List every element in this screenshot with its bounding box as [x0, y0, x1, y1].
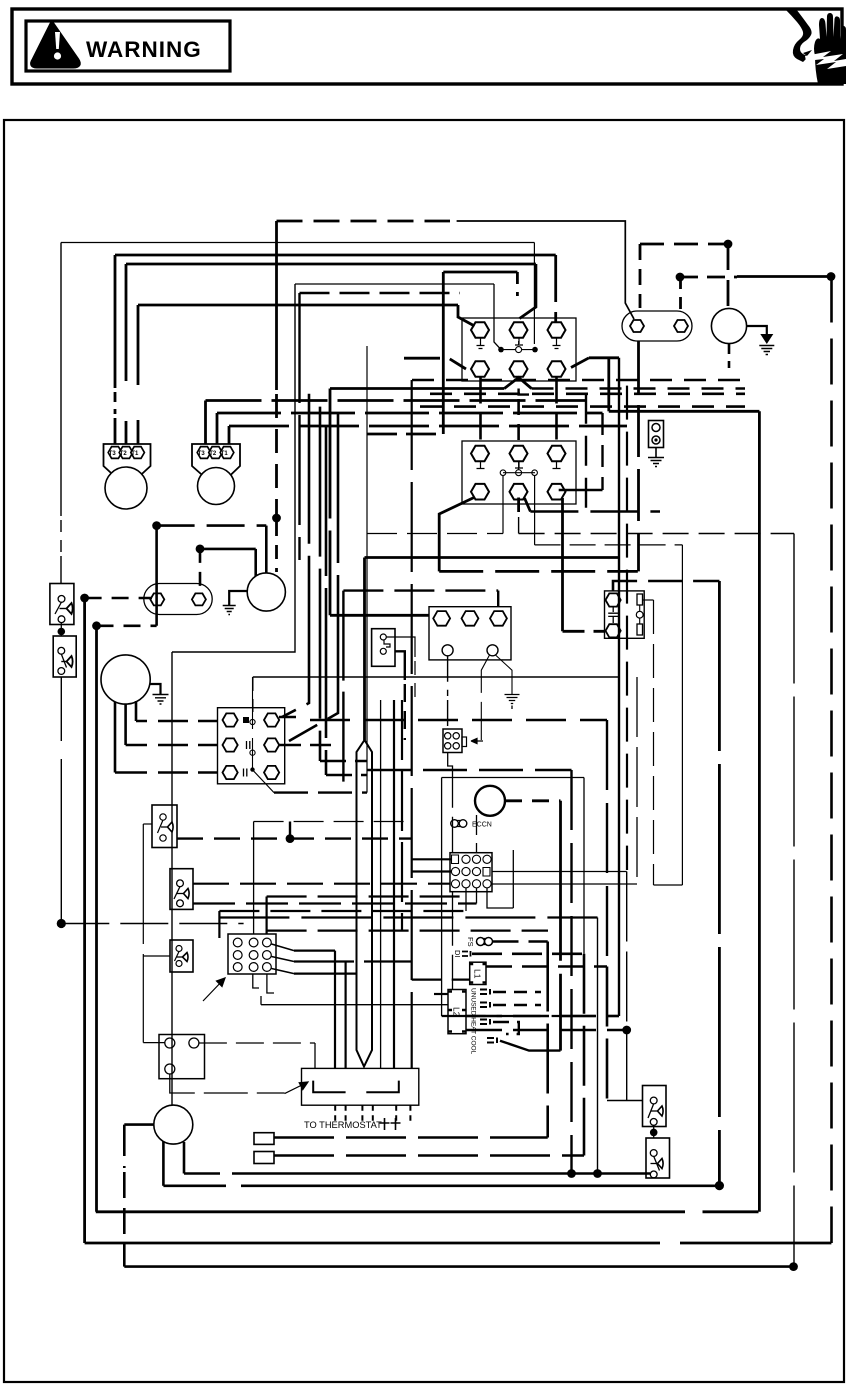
idc block 3x3 body	[228, 934, 276, 974]
wire x=84.6 long down	[83, 598, 86, 1243]
PS1 bottom wire right	[395, 651, 405, 680]
R1 right side elements	[637, 594, 643, 605]
wire thin y=284 run	[295, 283, 494, 285]
HR hex R2	[264, 738, 279, 751]
wire y=1185.8 long run	[163, 1185, 719, 1188]
node dot x831 y276.5	[827, 272, 836, 281]
wire K2 pole2 thin dashed run y=533.5	[519, 517, 794, 534]
plug UNUSED	[480, 989, 490, 995]
O2 hex terminal right	[192, 593, 206, 605]
wire y=571.4 run to oval feed	[439, 570, 638, 573]
M2 terminal T3	[197, 447, 211, 459]
wire diag into K1 pole1 bottom	[404, 358, 466, 369]
wire x=602.5 dashed riser	[601, 413, 603, 490]
svg-text:T1: T1	[131, 451, 139, 457]
RT2 wire right y=1155.5	[274, 1154, 584, 1157]
wire x=681 down to oval terminal	[679, 277, 682, 312]
K2 aux contact bar	[503, 472, 535, 474]
K2 pole2 top terminal	[510, 446, 528, 462]
wire x=586 dashed riser	[585, 394, 587, 512]
S3 contact symbol	[160, 814, 166, 820]
wire right vertical x=759.4	[758, 411, 761, 1212]
safety switch ground	[655, 448, 657, 458]
wire y=434 stub left	[367, 433, 443, 436]
ECCN wire right	[505, 799, 561, 802]
circle C1 transformer	[247, 573, 285, 611]
ECCN relay circle	[475, 786, 505, 816]
K1 pole1 coil mark	[477, 338, 485, 349]
plug HEAT	[480, 1002, 490, 1008]
node dot between S6 S7	[650, 1129, 658, 1137]
TS bottom dashed ticks	[335, 1105, 410, 1122]
T3 bottom-left wire	[162, 1142, 165, 1186]
HR internal link row2	[247, 741, 250, 749]
TS bracket right	[366, 1081, 399, 1093]
R1 hex top	[606, 593, 621, 606]
svg-text:WARNING: WARNING	[86, 37, 202, 62]
wire x=266.3 into circle C1	[265, 526, 268, 574]
S4 contact symbol	[177, 880, 184, 887]
tstat pointer arrow	[285, 1082, 308, 1094]
wire y=950.6 to bundle	[294, 949, 335, 951]
wire x=380.6 down	[380, 700, 382, 1068]
wire y=525.6 dashed to circle C1	[157, 524, 267, 527]
dagger marks	[380, 1118, 390, 1130]
ECCN jumper symbol	[451, 820, 459, 828]
CN col4 bottom tail	[487, 888, 513, 908]
wire thin x=367 long	[366, 346, 368, 793]
pilot switch box PS1	[372, 629, 395, 667]
M2 terminal T2	[209, 447, 223, 459]
wire y=357.8 K1 pole3 link	[589, 356, 619, 359]
wire x=626.7 from conn down to S6	[626, 872, 628, 1093]
K1 pole1 top terminal	[471, 322, 489, 338]
L2 box	[448, 990, 466, 1034]
wire top dashed run y=221	[277, 220, 451, 223]
TB1 hex 3	[490, 611, 507, 626]
CN right ext row3	[492, 883, 637, 885]
wire x=607 down	[606, 720, 608, 967]
svg-text:T2: T2	[120, 451, 128, 457]
R1 hex bottom	[606, 624, 621, 637]
K1 pole3 coil mark	[553, 338, 561, 349]
dashed bundle y=393.8	[430, 392, 745, 395]
wire T2 bottom-left to heater row3	[115, 702, 147, 773]
control box left edge	[441, 778, 443, 1005]
wire x=555.7 to contactor	[554, 255, 557, 322]
oval hex terminal left	[630, 320, 644, 332]
wire y=548.9 to circle C1	[200, 548, 256, 551]
M1 terminal T1	[131, 447, 145, 459]
wire x=597.5 riser	[597, 918, 599, 1174]
wire bundle x=326	[325, 426, 328, 775]
wire y=930.6 run	[267, 929, 548, 931]
wire bundle x=309 diag into HR R1	[282, 394, 309, 717]
node dot x626.7 y1030	[622, 1026, 631, 1035]
wire x=345.6 down to tstat	[345, 962, 347, 1069]
HR right stubs	[279, 716, 296, 719]
wire thin x=637	[636, 677, 638, 884]
wire x=138 to motor1 T1	[137, 305, 140, 444]
L1 right wire	[486, 965, 607, 968]
wire x=343.4 down to heater block	[342, 591, 344, 793]
wire x=639 dashed above oval	[639, 244, 642, 308]
wire x=126 to motor1 T2	[125, 264, 128, 444]
warning banner inner box	[26, 21, 230, 71]
control box right edge x=584	[583, 778, 585, 954]
node dot x290 y838.6	[286, 834, 295, 843]
S3 right dashed wire y=838.6	[177, 837, 412, 839]
wire y=557.5 run	[365, 556, 620, 559]
tstat arrow stem pair	[357, 740, 373, 1067]
S1 contact symbol	[58, 596, 65, 603]
warning triangle symbol	[33, 24, 79, 66]
C1 ground symbol	[223, 606, 236, 615]
M1 terminal T2	[119, 447, 133, 459]
TB1 hex 1	[433, 611, 450, 626]
oval terminal block O2	[144, 584, 212, 615]
wire x=200 dashed into oval O2	[199, 549, 202, 590]
node dot x728 y244	[724, 240, 733, 249]
wire y=770 run right	[367, 769, 572, 771]
K2 pole2 bottom terminal	[510, 484, 528, 500]
CN left feed row1	[412, 858, 452, 860]
wire TB1-B fork to ground	[481, 655, 489, 740]
svg-text:ECCN: ECCN	[472, 822, 492, 829]
K2 pole1 coil mark	[477, 462, 485, 469]
contactor K1 body	[462, 318, 576, 381]
wire x=266.6 down to idc	[266, 897, 268, 938]
motor M1 body	[105, 467, 147, 509]
DI plug symbol	[462, 951, 471, 957]
switch S7 box	[646, 1138, 670, 1178]
K2 pole column feeds from K1	[479, 378, 482, 447]
K1 pole3 top terminal	[548, 322, 566, 338]
T1 ground symbol	[760, 334, 773, 344]
K1 pole2 coil mark	[515, 338, 523, 345]
K1 pole2 top terminal	[510, 322, 528, 338]
PS1 top wire right thin	[386, 637, 415, 657]
wire x=441.6 jog	[441, 1005, 443, 1016]
PS1 contact symbol	[380, 634, 386, 640]
motor M1 terminal block	[104, 444, 151, 478]
switch S3 box	[152, 805, 177, 848]
wire y=511.5 run right	[530, 510, 660, 513]
safety switch box right (two circles)	[649, 421, 664, 448]
HR hex R3	[264, 766, 279, 779]
node dot x61 y923.5	[57, 919, 66, 928]
svg-text:UNUSED HEAT COOL: UNUSED HEAT COOL	[470, 988, 477, 1055]
wire y=896.5 run	[267, 895, 466, 897]
R1 capacitor mark	[608, 607, 618, 623]
wire long dashed right side x=831.5	[830, 277, 833, 1244]
wire x=156.6 through oval O2	[155, 526, 158, 626]
CN pins row2	[451, 867, 459, 875]
S7 contact symbol	[650, 1150, 657, 1157]
wire y=426 motor2 T1 run	[229, 425, 627, 428]
wire T2 bottom-mid to heater row2	[126, 704, 147, 745]
LVB bottom wire y=1093 to arrow	[170, 1074, 285, 1093]
dashed bundle y=388.5 from K1 V-split	[532, 387, 746, 390]
idc circles row2	[233, 951, 242, 960]
S6 left wire	[607, 1100, 643, 1102]
wire S2 down to bottom node	[60, 677, 62, 924]
FS plug symbol	[477, 938, 485, 946]
wire y=1211.8 long run	[96, 1210, 759, 1213]
wire thin x=534.4 to aux contact	[533, 243, 535, 345]
S6 contact symbol	[650, 1097, 657, 1104]
node dot x793.5 y1266.6	[789, 1262, 798, 1271]
T2 ground symbol	[153, 695, 169, 705]
DI wire right	[472, 952, 584, 955]
wire x=498.2 into strip TB1	[497, 591, 499, 611]
wire y=961.5 to bundle	[294, 960, 412, 962]
PSW arrow	[471, 738, 483, 743]
K2 pole3 top terminal	[548, 446, 566, 462]
CN col2 bottom tail	[465, 888, 467, 911]
wire x=728 down to transformer T1	[727, 244, 730, 308]
wire y=1016 left run	[442, 1015, 619, 1017]
wire y=821.5 thin dashed run	[254, 821, 412, 823]
wire x=517.4 dashed down	[516, 272, 519, 296]
switch S4 box	[170, 869, 193, 910]
S4 bottom wire to conn col3 tail	[193, 902, 477, 904]
wire y=305 run	[138, 304, 458, 307]
terminal strip TB1	[429, 607, 511, 660]
wire y=720 long dashed to x=607	[310, 719, 607, 721]
node dot x719.4 y1185.6	[715, 1181, 724, 1190]
switch S2 box	[53, 636, 76, 677]
relay terminal boxes RT2	[254, 1152, 274, 1164]
wire y=400.5 motor2 T3 run	[206, 399, 587, 402]
wire y=625.8 dashed to oval O2	[97, 624, 157, 627]
wire x=394 down	[393, 700, 395, 1068]
wire y=973.6 to arrow stem	[294, 972, 357, 974]
HR internal link row1	[243, 717, 249, 723]
wire x=96.5 long down	[95, 626, 98, 1212]
T1 bottom stub	[728, 344, 731, 368]
CN pins row1	[452, 855, 459, 864]
wire y=1243 long run	[85, 1242, 832, 1245]
wire vertical x=627 dashed long	[626, 386, 628, 870]
wire x=315 into tstat	[314, 1043, 316, 1068]
L1 box	[470, 962, 486, 984]
wire y=1266.6 long run	[124, 1265, 793, 1268]
idc circles row3	[233, 963, 242, 972]
motor M2 terminal block	[192, 444, 240, 478]
contactor K2 body	[462, 441, 576, 504]
motor M2 body	[198, 468, 235, 505]
wire x=607 down to S6	[606, 967, 609, 1101]
wire x=219.4 down	[218, 911, 220, 938]
wire x=608.8 riser	[607, 358, 610, 412]
wire K2 aux middle stub	[518, 462, 520, 470]
HR internal thin column	[252, 677, 254, 768]
L2 left wire short	[434, 993, 448, 995]
switch S6 box	[643, 1086, 667, 1127]
wire diag into K1 pole3 bottom	[571, 358, 589, 368]
wire K2 pole2 stub and diag	[517, 498, 520, 513]
wire x=547.7 down	[546, 942, 549, 1138]
wire bundle x=320	[319, 407, 322, 761]
svg-text:TO THERMOSTAT: TO THERMOSTAT	[304, 1120, 382, 1130]
HR hex L2	[223, 738, 238, 751]
node dot x597.5 y1174	[593, 1169, 602, 1178]
HR hex L1	[223, 713, 238, 726]
wire x=584 down	[583, 954, 586, 1156]
HR diag row3 out	[254, 771, 274, 793]
wire y=411.3 to right vertical	[609, 410, 760, 413]
wire y=590.6 run	[343, 589, 498, 591]
TS bracket left	[313, 1081, 345, 1093]
CN col3 bottom tail	[476, 888, 478, 904]
wire x=172 down to transformer T2	[171, 652, 173, 1106]
wire y=677 thin long run	[253, 676, 619, 678]
K1 pole1 bottom terminal	[471, 361, 489, 377]
K1 pole2 bottom terminal	[510, 361, 528, 377]
thermostat box TS	[302, 1068, 419, 1105]
wire x=295 down and over to x=172	[172, 284, 295, 652]
switch S1 box	[50, 584, 74, 625]
K1 V-split under pole2	[504, 378, 531, 389]
relay terminal boxes RT1	[254, 1133, 274, 1145]
wire x=253.6 down to idc block	[253, 822, 255, 938]
transformer T3 circle	[154, 1105, 193, 1144]
wire thin x=61 down to switch S1	[60, 243, 62, 584]
ground under TB1	[505, 695, 520, 710]
LVB left wire	[143, 1042, 165, 1044]
S5 contact symbol	[176, 946, 182, 952]
K2 pole3 coil mark	[553, 462, 561, 469]
wire y=923.5 dashed right	[61, 923, 243, 925]
K1 aux contact bar	[501, 349, 535, 351]
wire x=513.3 stub up	[512, 850, 514, 908]
wire thin x=794 long down	[793, 534, 795, 1267]
wire y=631.3 into relay box	[563, 630, 605, 633]
idc right diagonals	[272, 944, 295, 974]
svg-text:L1: L1	[473, 969, 483, 979]
wire K2 pole3 down to relay box	[561, 498, 564, 631]
wire x=402 down	[401, 700, 403, 931]
wire thin x=682.4 down	[681, 545, 683, 885]
node dot x156.6 y525.6	[152, 521, 161, 530]
wire x=535.9 diag to contactor K1 pole2	[520, 264, 536, 319]
node dot x96.5 y625.8	[92, 621, 101, 630]
K1 pole3 bottom terminal	[548, 361, 566, 377]
wire x=299.5 down	[298, 293, 300, 560]
wire y=911 run	[219, 910, 466, 912]
wire x=458 diag to contactor K1 pole1	[458, 305, 475, 326]
svg-text:DI: DI	[453, 950, 462, 958]
L2 right wire y=1016	[466, 1015, 619, 1017]
node dot x200 y548.9	[196, 545, 205, 554]
wire x=415 dashed down	[414, 661, 416, 700]
wire K2 pole1 diag down-left	[439, 498, 474, 572]
wire x=443.3 down	[442, 272, 445, 434]
CN pins row3	[451, 880, 459, 888]
wire y=917.5 long run	[219, 916, 597, 918]
transformer T2 circle	[101, 655, 150, 704]
connector block CN body	[450, 853, 492, 892]
node dot x680 y277	[676, 273, 685, 282]
wire vertical x=619 long	[618, 358, 620, 1016]
T3 bottom-right wire	[183, 1142, 186, 1174]
wire R1 top up and right y=581	[613, 581, 719, 591]
T2 right ground wire	[150, 684, 161, 694]
M1 terminal T3	[108, 447, 122, 459]
wire y=272 run	[443, 271, 517, 274]
node dot between S1 S2	[58, 628, 66, 636]
K2 pole1 bottom terminal	[471, 484, 489, 500]
idc hook riser	[260, 996, 262, 1005]
wire thin y=242.5 left run	[61, 242, 534, 244]
wire y=1173.5 transformer to S7	[184, 1172, 650, 1175]
S4 top wire to conn row3	[193, 883, 450, 885]
T1 ground wire	[747, 326, 767, 336]
wire vertical x=638.5 oval to y571	[637, 341, 640, 571]
wire x=115 to motor1 T3	[114, 255, 117, 444]
HR hex L3	[223, 766, 238, 779]
node dot x276 y518	[272, 514, 281, 523]
control box outline top edge	[442, 777, 584, 779]
L1 left wire	[412, 978, 470, 980]
wire x=143.3 down	[142, 824, 144, 1043]
wire T2 right to heater row1	[136, 701, 147, 721]
oval terminal block upper right	[622, 311, 692, 341]
wire dashed y=244 to transformer	[640, 243, 728, 246]
wire y=1016 corner at x=619	[618, 1015, 620, 1017]
K2 pole3 bottom terminal	[548, 484, 566, 500]
PSW bottom wire to L2	[448, 753, 453, 990]
dashed bundle y=380	[412, 379, 745, 382]
wire TB1-A down to pressure switch	[447, 656, 449, 729]
hand with electric shock icon	[785, 9, 846, 84]
warning banner outer box	[12, 9, 842, 84]
wire x=404.8 dashed down	[404, 684, 406, 740]
svg-text:T3: T3	[109, 451, 117, 457]
M2 terminal T1	[220, 447, 234, 459]
wire y=413 motor2 T2 run	[217, 412, 603, 415]
TB1 hex 2	[462, 611, 479, 626]
transformer T1 circle	[711, 308, 746, 343]
wire x=255.7 into circle C1	[254, 549, 257, 577]
C1 ground wire	[229, 591, 247, 605]
wire x=290 stub up	[289, 822, 291, 839]
T3 left wire	[124, 1123, 154, 1126]
wire bundle x=338 diag into HR R2	[289, 413, 338, 741]
wire x=411.7 long down	[411, 380, 413, 1068]
wire x=252.8 dashed into heater block	[252, 677, 254, 712]
HR hex R1	[264, 713, 279, 726]
wire K2 pole3 right link	[559, 489, 603, 492]
wire x=335 down to tstat	[334, 951, 336, 1069]
wire K2 aux left thin	[502, 476, 504, 534]
heater relay block HR body	[218, 708, 285, 784]
wire x=571.5 down to bottom row	[570, 770, 572, 1174]
node dot x84.6 y598	[80, 594, 89, 603]
4-terminal box LVB	[159, 1035, 205, 1079]
wire thin x=494 diag to aux dot	[494, 284, 501, 350]
wire y=293 run	[300, 292, 461, 295]
R1 right wire thin to x=653.5	[643, 599, 654, 601]
S5 left wire	[143, 955, 170, 957]
wire y=615.3 into strip TB1	[330, 614, 434, 617]
S3 left wire	[143, 823, 152, 825]
idc circles row1	[233, 938, 242, 947]
wire x=719.4 long down	[718, 581, 721, 1186]
L2 left long thin wire y=1004.7	[261, 1004, 448, 1006]
FS wire right	[493, 940, 548, 943]
